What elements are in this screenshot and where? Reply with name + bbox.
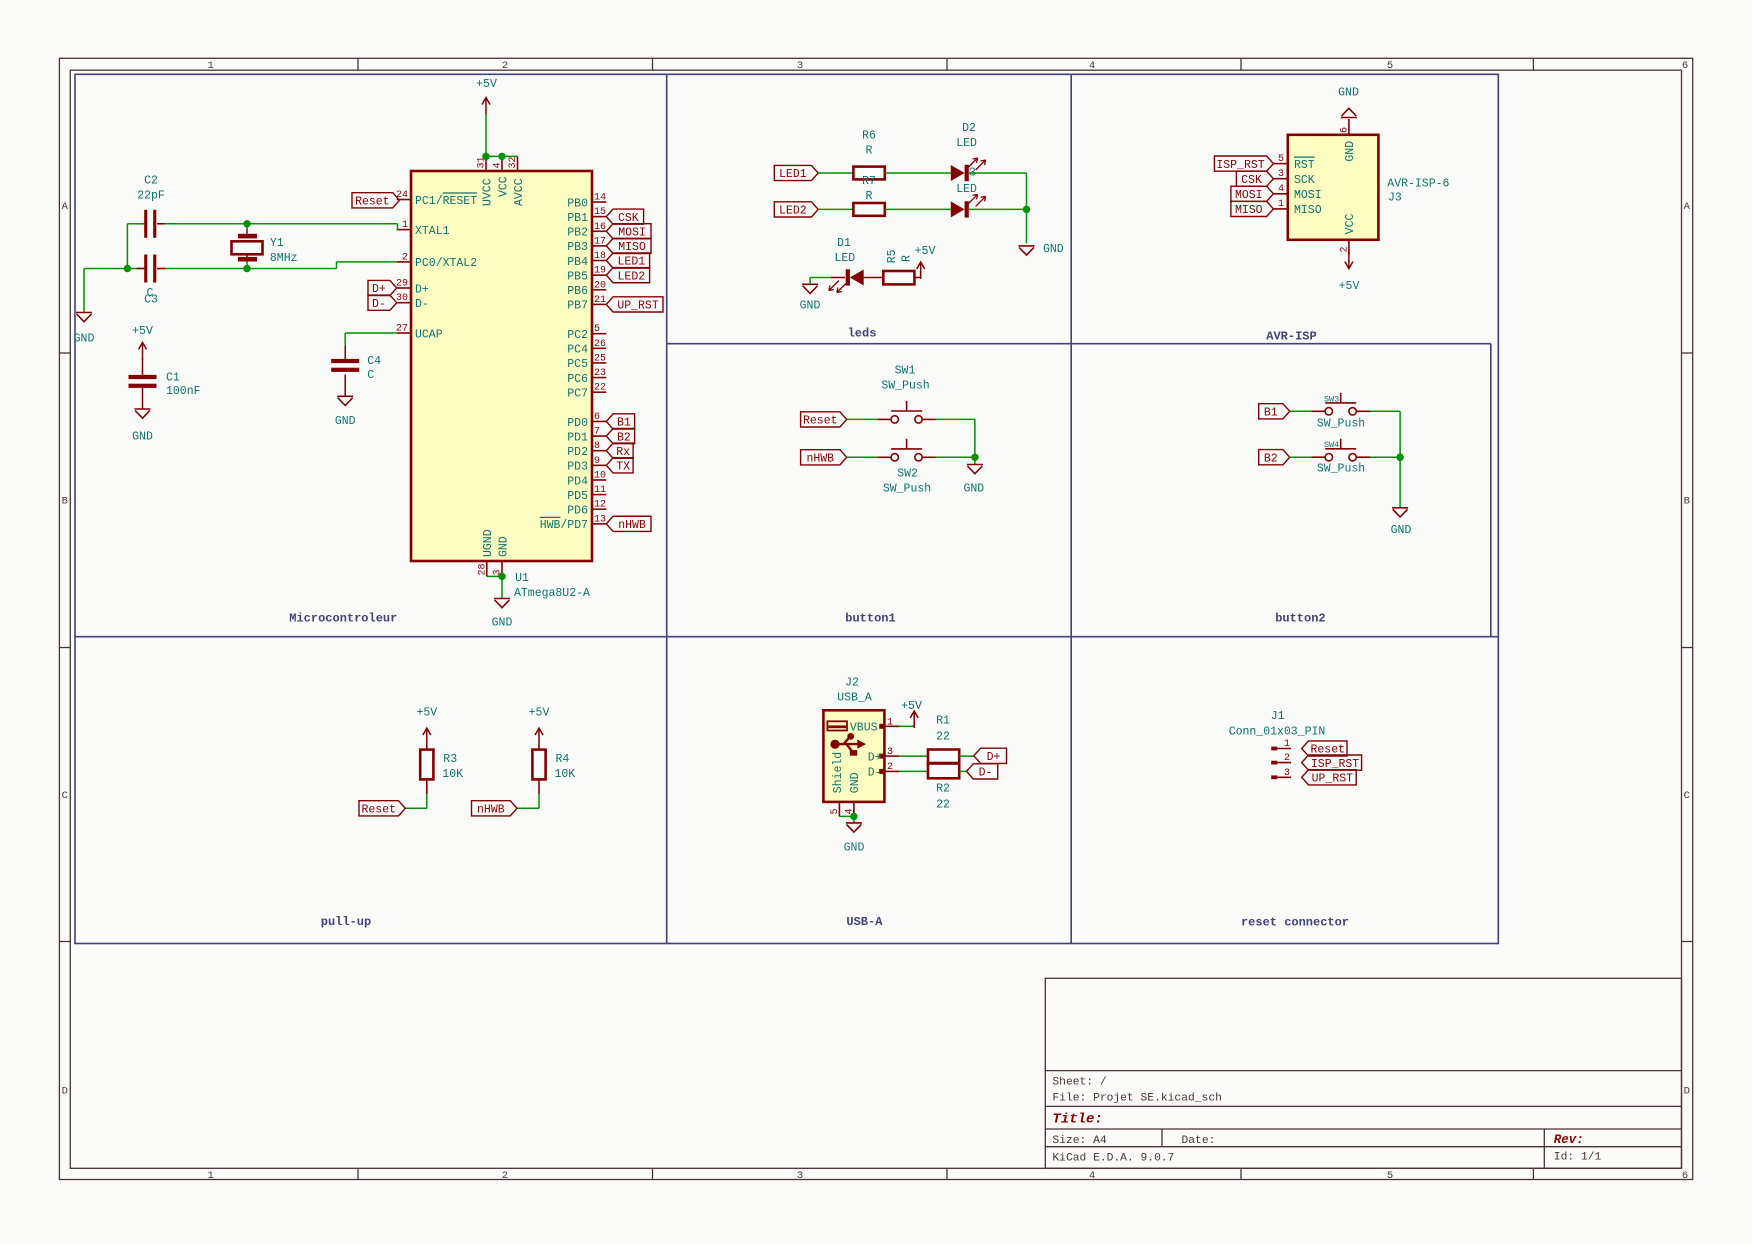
svg-text:ISP_RST: ISP_RST <box>1216 159 1264 172</box>
svg-text:5: 5 <box>1278 154 1284 165</box>
junction <box>498 153 505 160</box>
svg-text:D+: D+ <box>987 751 1001 764</box>
svg-text:1: 1 <box>208 1170 214 1182</box>
U1 pin 12 PD6 <box>592 508 606 510</box>
J1 pin 3 <box>1274 776 1291 778</box>
svg-text:+5V: +5V <box>529 707 550 720</box>
svg-text:D-: D- <box>415 298 429 311</box>
svg-text:11: 11 <box>594 485 606 496</box>
wire <box>486 155 518 157</box>
switch SW2 <box>877 439 936 461</box>
svg-text:2: 2 <box>887 762 893 773</box>
svg-text:GND: GND <box>1344 141 1357 162</box>
junction <box>482 153 489 160</box>
svg-text:PB5: PB5 <box>567 270 588 283</box>
svg-text:Reset: Reset <box>803 415 838 428</box>
svg-text:HWB/PD7: HWB/PD7 <box>540 519 588 532</box>
U1 pin 10 PD4 <box>592 479 606 481</box>
svg-text:Y1: Y1 <box>270 237 284 250</box>
svg-text:4: 4 <box>493 162 504 168</box>
svg-text:4: 4 <box>1278 184 1284 195</box>
svg-text:2: 2 <box>1339 246 1350 252</box>
svg-text:LED1: LED1 <box>618 256 646 269</box>
svg-text:File: Projet SE.kicad_sch: File: Projet SE.kicad_sch <box>1052 1093 1221 1105</box>
U1 pin 30 D- <box>397 302 411 304</box>
svg-text:PC0/XTAL2: PC0/XTAL2 <box>415 257 477 270</box>
connector J2 USB_A body <box>823 710 884 802</box>
wire <box>1399 457 1401 507</box>
svg-text:LED: LED <box>956 137 977 150</box>
svg-text:18: 18 <box>594 251 606 262</box>
svg-text:19: 19 <box>594 266 606 277</box>
svg-text:PB7: PB7 <box>567 300 588 313</box>
svg-text:B2: B2 <box>1264 452 1278 465</box>
svg-text:R: R <box>900 255 913 262</box>
wire <box>127 223 144 225</box>
svg-text:3: 3 <box>887 747 893 758</box>
svg-text:pull-up: pull-up <box>321 915 371 929</box>
U1 pin 13 HWB/PD7 <box>592 523 606 525</box>
U1 top pin 4 <box>501 156 503 171</box>
svg-text:SW1: SW1 <box>895 365 916 378</box>
svg-text:A: A <box>1684 201 1691 213</box>
U1 pin 27 UCAP <box>397 332 411 334</box>
wire <box>126 224 128 269</box>
ground USB <box>846 823 862 832</box>
svg-text:A: A <box>62 201 69 213</box>
ground C1 <box>142 388 144 409</box>
svg-text:PD3: PD3 <box>567 461 588 474</box>
wire <box>899 725 914 727</box>
U1 top pin 31 <box>485 156 487 171</box>
wire <box>426 794 428 808</box>
svg-text:SW3: SW3 <box>1324 394 1339 404</box>
svg-text:1: 1 <box>402 220 408 231</box>
global label D- (USB) <box>967 764 998 779</box>
svg-text:PD1: PD1 <box>567 431 588 444</box>
LED D2 <box>951 165 965 181</box>
svg-text:+5V: +5V <box>476 78 497 91</box>
svg-text:R3: R3 <box>443 753 457 766</box>
svg-text:100nF: 100nF <box>166 385 201 398</box>
svg-text:PB0: PB0 <box>567 197 588 210</box>
svg-text:8: 8 <box>594 441 600 452</box>
svg-text:VCC: VCC <box>497 176 510 197</box>
svg-text:6: 6 <box>1339 127 1350 133</box>
capacitor C4 <box>331 359 359 363</box>
svg-text:2: 2 <box>1284 753 1290 764</box>
svg-text:C: C <box>367 369 374 382</box>
svg-text:7: 7 <box>594 427 600 438</box>
svg-text:9: 9 <box>594 456 600 467</box>
U1 pin 9 PD3 <box>592 464 606 466</box>
global label MISO <box>606 238 651 253</box>
J3 pin 2 VCC <box>1348 240 1350 255</box>
wire <box>847 456 878 458</box>
svg-text:12: 12 <box>594 500 606 511</box>
junction <box>498 573 505 580</box>
svg-text:AVCC: AVCC <box>513 178 526 206</box>
global label Reset (U1) <box>352 193 400 208</box>
wire <box>818 172 853 174</box>
svg-text:GND: GND <box>963 482 984 495</box>
wire <box>969 208 1027 210</box>
svg-text:4: 4 <box>1089 60 1095 72</box>
U1 pin 2 PC0/XTAL2 <box>397 261 411 263</box>
global label LED1 (leds) <box>774 165 818 180</box>
svg-text:UP_RST: UP_RST <box>617 300 659 313</box>
svg-text:B: B <box>1684 496 1690 508</box>
svg-text:GND: GND <box>800 300 821 313</box>
wire <box>936 456 975 458</box>
global label Rx <box>606 443 633 458</box>
global label D+ (USB) <box>974 748 1007 763</box>
svg-text:LED2: LED2 <box>779 205 807 218</box>
global label nHWB (button1) <box>801 450 847 465</box>
resistor R1 <box>928 750 959 764</box>
switch SW1 <box>877 401 936 423</box>
svg-text:30: 30 <box>396 293 408 304</box>
J2 pin 3 D+ <box>884 755 899 757</box>
svg-text:USB_A: USB_A <box>837 692 872 705</box>
resistor R7 <box>853 203 884 216</box>
connector J3 AVR-ISP-6 body <box>1288 135 1379 240</box>
svg-text:GND: GND <box>335 415 356 428</box>
svg-text:UP_RST: UP_RST <box>1312 773 1354 786</box>
svg-text:UCAP: UCAP <box>415 328 443 341</box>
U1 pin 29 D+ <box>397 287 411 289</box>
svg-text:GND: GND <box>492 617 513 630</box>
svg-text:16: 16 <box>594 222 606 233</box>
wire gnd to D1 <box>809 278 811 285</box>
svg-text:15: 15 <box>594 207 606 218</box>
U1 pin 22 PC7 <box>592 391 606 393</box>
svg-text:SCK: SCK <box>1294 174 1315 187</box>
global label ISP_RST (J1) <box>1302 755 1362 770</box>
wire <box>157 223 398 225</box>
svg-text:26: 26 <box>594 339 606 350</box>
svg-text:R7: R7 <box>862 175 876 188</box>
svg-text:Rev:: Rev: <box>1554 1133 1584 1147</box>
wire <box>885 208 951 210</box>
global label CSK (J3) <box>1236 171 1273 186</box>
ground button2 <box>1392 508 1408 517</box>
global label UP_RST (J1) <box>1302 770 1357 785</box>
svg-text:D-: D- <box>868 767 882 780</box>
svg-text:B: B <box>62 496 68 508</box>
svg-text:22: 22 <box>594 383 606 394</box>
svg-text:nHWB: nHWB <box>806 453 834 466</box>
svg-text:TX: TX <box>616 461 630 474</box>
LED D3 <box>951 201 965 217</box>
wire <box>847 418 878 420</box>
global label LED2 (leds) <box>774 202 818 217</box>
global label Reset (button1) <box>801 412 847 427</box>
svg-text:SW_Push: SW_Push <box>1317 463 1365 476</box>
svg-text:22: 22 <box>936 730 950 743</box>
svg-text:Size: A4: Size: A4 <box>1052 1135 1106 1147</box>
svg-text:32: 32 <box>508 156 519 168</box>
U1 top pin 32 <box>517 156 519 171</box>
svg-text:J3: J3 <box>1388 192 1402 205</box>
wire <box>885 172 951 174</box>
wire <box>1290 410 1312 412</box>
svg-text:5: 5 <box>830 808 841 814</box>
J3 pin 5 RST <box>1273 163 1287 165</box>
junction <box>1023 206 1030 213</box>
svg-text:3: 3 <box>1284 768 1290 779</box>
U1 pin 25 PC5 <box>592 362 606 364</box>
J2 pin 2 D- <box>884 770 899 772</box>
U1 bottom pin 28 <box>486 561 488 576</box>
capacitor C3 <box>137 268 145 270</box>
svg-text:Rx: Rx <box>616 446 630 459</box>
svg-text:2: 2 <box>402 252 408 263</box>
wire <box>405 807 427 809</box>
svg-text:Title:: Title: <box>1052 1112 1102 1128</box>
wire R4 bottom <box>538 779 540 794</box>
U1 pin 1 XTAL1 <box>397 229 411 231</box>
resistor R5 <box>883 271 914 284</box>
svg-text:R2: R2 <box>936 783 950 796</box>
svg-text:MISO: MISO <box>1235 204 1263 217</box>
svg-text:+5V: +5V <box>416 707 437 720</box>
svg-text:4: 4 <box>1089 1170 1095 1182</box>
U1 pin 26 PC4 <box>592 347 606 349</box>
ground C4 <box>344 375 346 396</box>
junction <box>1396 454 1403 461</box>
svg-text:Reset: Reset <box>355 196 390 209</box>
global label LED1 <box>606 253 649 268</box>
svg-text:D+: D+ <box>868 751 882 764</box>
U1 pin 18 PB4 <box>592 260 606 262</box>
svg-text:PC6: PC6 <box>567 373 588 386</box>
svg-text:29: 29 <box>396 279 408 290</box>
svg-text:GND: GND <box>497 536 510 557</box>
svg-text:13: 13 <box>594 514 606 525</box>
svg-text:C2: C2 <box>144 175 158 188</box>
global label D- (U1) <box>368 295 397 310</box>
svg-text:PD0: PD0 <box>567 417 588 430</box>
wire <box>839 815 854 817</box>
switch SW4 <box>1311 439 1370 461</box>
wire <box>485 114 487 156</box>
wire <box>517 807 539 809</box>
U1 bottom pin 3 <box>501 561 503 576</box>
global label MOSI (J3) <box>1231 186 1274 201</box>
wire <box>936 418 975 420</box>
U1 pin 16 PB2 <box>592 230 606 232</box>
svg-text:R: R <box>866 145 873 158</box>
svg-text:21: 21 <box>594 295 606 306</box>
svg-text:D+: D+ <box>415 283 429 296</box>
global label Reset (pull-up) <box>359 801 405 816</box>
svg-text:PD2: PD2 <box>567 446 588 459</box>
global label D+ (U1) <box>368 280 397 295</box>
J3 pin 6 GND <box>1348 119 1350 135</box>
svg-text:C: C <box>62 790 68 802</box>
svg-text:6: 6 <box>594 412 600 423</box>
J2 pin 5 Shield <box>838 802 840 817</box>
J3 pin 3 SCK <box>1273 178 1287 180</box>
global label B1 <box>606 414 634 429</box>
svg-text:C: C <box>1684 790 1690 802</box>
wire <box>487 575 502 577</box>
junction <box>124 265 131 272</box>
svg-text:RST: RST <box>1294 159 1315 172</box>
svg-text:PB3: PB3 <box>567 241 588 254</box>
global label nHWB (U1) <box>606 516 651 531</box>
resistor R4 <box>532 750 545 780</box>
wire <box>959 770 966 772</box>
svg-text:23: 23 <box>594 368 606 379</box>
svg-text:VBUS: VBUS <box>850 722 878 735</box>
svg-text:MISO: MISO <box>618 241 646 254</box>
svg-text:B2: B2 <box>617 431 631 444</box>
svg-text:+5V: +5V <box>901 700 922 713</box>
svg-text:B1: B1 <box>1264 407 1278 420</box>
crystal Y1 <box>246 224 248 229</box>
J1 pin 2 <box>1274 762 1291 764</box>
wire <box>974 419 976 457</box>
svg-text:8MHz: 8MHz <box>270 252 298 265</box>
wire <box>1290 456 1312 458</box>
svg-text:LED: LED <box>956 183 977 196</box>
svg-text:PB1: PB1 <box>567 212 588 225</box>
svg-text:PB2: PB2 <box>567 227 588 240</box>
svg-text:ISP_RST: ISP_RST <box>1311 758 1359 771</box>
svg-text:1: 1 <box>887 717 893 728</box>
global label TX <box>606 458 633 473</box>
U1 pin 20 PB6 <box>592 289 606 291</box>
svg-text:PD5: PD5 <box>567 490 588 503</box>
resistor R2 <box>928 764 959 779</box>
svg-text:LED2: LED2 <box>618 270 646 283</box>
U1 pin 24 PC1/RESET <box>397 199 411 201</box>
global label MISO (J3) <box>1231 201 1274 216</box>
global label LED2 <box>606 268 649 283</box>
power +5V U1 top <box>482 98 490 115</box>
svg-text:R: R <box>866 190 873 203</box>
wire <box>818 208 853 210</box>
wire <box>1370 456 1400 458</box>
svg-text:3: 3 <box>1278 169 1284 180</box>
svg-text:leds: leds <box>848 327 877 341</box>
title block <box>1045 978 1681 1168</box>
svg-text:Reset: Reset <box>361 804 396 817</box>
svg-text:nHWB: nHWB <box>477 804 505 817</box>
svg-text:B1: B1 <box>617 417 631 430</box>
svg-text:D+: D+ <box>372 283 386 296</box>
svg-text:5: 5 <box>1387 60 1393 72</box>
svg-text:PD4: PD4 <box>567 475 588 488</box>
resistor R6 <box>853 167 884 180</box>
svg-text:D-: D- <box>372 298 386 311</box>
wire <box>969 172 1027 174</box>
svg-text:LED: LED <box>834 252 855 265</box>
svg-text:GND: GND <box>1391 524 1412 537</box>
svg-text:ATmega8U2-A: ATmega8U2-A <box>514 587 590 600</box>
svg-text:J2: J2 <box>845 677 859 690</box>
global label CSK <box>606 209 643 224</box>
wire <box>899 755 928 757</box>
J1 pin 1 <box>1274 748 1291 750</box>
svg-text:3: 3 <box>797 60 803 72</box>
wire <box>1399 411 1401 457</box>
svg-text:LED1: LED1 <box>779 168 807 181</box>
svg-text:button2: button2 <box>1275 612 1325 626</box>
svg-text:GND: GND <box>1043 243 1064 256</box>
svg-text:MISO: MISO <box>1294 204 1322 217</box>
svg-text:14: 14 <box>594 193 606 204</box>
svg-text:PD6: PD6 <box>567 505 588 518</box>
svg-text:5: 5 <box>594 324 600 335</box>
svg-text:Sheet: /: Sheet: / <box>1052 1077 1106 1089</box>
wire <box>1026 173 1028 243</box>
svg-text:20: 20 <box>594 280 606 291</box>
global label B1 (button2) <box>1259 404 1290 419</box>
svg-text:SW_Push: SW_Push <box>881 380 929 393</box>
junction <box>243 220 250 227</box>
junction <box>850 813 857 820</box>
U1 pin 19 PB5 <box>592 274 606 276</box>
svg-text:25: 25 <box>594 353 606 364</box>
svg-text:AVR-ISP: AVR-ISP <box>1266 330 1316 344</box>
svg-text:Shield: Shield <box>832 752 845 793</box>
svg-text:+5V: +5V <box>915 245 936 258</box>
wire <box>344 333 346 346</box>
svg-text:PC2: PC2 <box>567 329 588 342</box>
svg-text:27: 27 <box>396 324 408 335</box>
J3 pin 1 MISO <box>1273 208 1287 210</box>
U1 pin 17 PB3 <box>592 245 606 247</box>
svg-text:1: 1 <box>1278 199 1284 210</box>
svg-text:6: 6 <box>1682 1170 1688 1182</box>
wire <box>959 755 974 757</box>
svg-text:D: D <box>62 1086 68 1098</box>
capacitor C1 <box>142 358 144 375</box>
U1 pin 21 PB7 <box>592 303 606 305</box>
wire <box>899 770 928 772</box>
svg-text:PB4: PB4 <box>567 256 588 269</box>
wire <box>83 269 85 313</box>
svg-text:R1: R1 <box>936 714 950 727</box>
LED D1 <box>831 277 845 279</box>
svg-text:Microcontroleur: Microcontroleur <box>289 612 397 626</box>
wire <box>157 268 337 270</box>
svg-text:1: 1 <box>208 60 214 72</box>
svg-text:reset connector: reset connector <box>1241 916 1349 930</box>
svg-text:5: 5 <box>1387 1170 1393 1182</box>
svg-text:Date:: Date: <box>1182 1135 1216 1147</box>
svg-text:D-: D- <box>979 767 993 780</box>
U1 pin 23 PC6 <box>592 377 606 379</box>
svg-text:SW4: SW4 <box>1324 440 1339 450</box>
resistor R3 <box>420 750 433 780</box>
U1 pin 15 PB1 <box>592 216 606 218</box>
svg-text:USB-A: USB-A <box>846 915 883 929</box>
svg-text:PB6: PB6 <box>567 285 588 298</box>
U1 pin 7 PD1 <box>592 435 606 437</box>
junction <box>971 454 978 461</box>
U1 pin 6 PD0 <box>592 420 606 422</box>
global label MOSI <box>606 224 651 239</box>
svg-text:PC7: PC7 <box>567 387 588 400</box>
global label B2 (button2) <box>1259 450 1290 465</box>
wire R3 bottom <box>426 779 428 794</box>
svg-text:2: 2 <box>502 60 508 72</box>
wire <box>1370 410 1400 412</box>
